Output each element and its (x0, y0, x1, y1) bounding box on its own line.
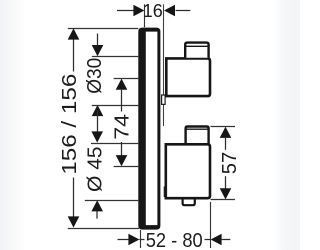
dim 16: right segment (176, 10, 191, 12)
top handle body (166, 58, 210, 96)
dim 156/156: up arrow (68, 28, 80, 39)
dim 52-80: left-pointing arrow (211, 234, 222, 246)
dim Ø45: bottom extension line (85, 200, 139, 202)
dim 57: up arrow (220, 127, 232, 138)
dim 74: lower segment (121, 142, 123, 156)
dim 57: down arrow (220, 188, 232, 199)
shared leader between Ø30 and Ø45 (97, 111, 99, 132)
bottom handle body (166, 144, 210, 198)
bottom tab inner line (186, 128, 209, 130)
top handle collar stub (162, 95, 166, 104)
dim Ø30: down arrow (92, 45, 104, 56)
dim 74: up arrow (116, 79, 128, 90)
dim 16: left-pointing arrow (164, 5, 175, 17)
dim Ø45: up arrow (91, 200, 103, 211)
plate front bezel line / right extension of dim 16 (163, 4, 165, 126)
dim 156/156: vertical line upper segment (73, 39, 75, 72)
dim 156/156: vertical line lower segment (73, 178, 75, 218)
escutcheon plate (side section, thick left bar) (138, 28, 160, 230)
dim 156/156: bottom extension line (68, 228, 139, 230)
dim 57: bottom extension line (211, 199, 236, 201)
top handle tab (185, 43, 208, 58)
dim Ø30: bottom extension line (92, 105, 139, 107)
dim 52-80: left tail (118, 239, 133, 241)
bottom handle collar line (163, 187, 165, 198)
dim 52-80: right tail (222, 239, 231, 241)
dim 57: top extension line (211, 126, 236, 128)
dim 74: top extension line (114, 78, 139, 80)
dim 57: upper segment (225, 137, 227, 150)
dim Ø45: top extension line (91, 143, 138, 145)
dim 74: bottom extension line (114, 166, 139, 168)
top tab inner line (185, 45, 208, 47)
dim 156/156: top extension line (68, 28, 139, 30)
dim 156/156: down arrow (68, 216, 80, 227)
dim Ø30: up arrow (92, 105, 104, 116)
dim 52-80: right extension line (210, 202, 212, 248)
dim Ø45: lower leader (96, 211, 98, 219)
svg-text:74: 74 (112, 114, 134, 139)
dim 16: left extension line (144, 4, 146, 27)
dim 74: upper segment (121, 89, 123, 112)
svg-text:156 / 156: 156 / 156 (59, 74, 81, 175)
bottom handle foot (183, 200, 195, 206)
dim 57: lower segment (225, 176, 227, 188)
dim 52-80: right-pointing arrow (128, 234, 139, 246)
dim 74: down arrow (116, 155, 128, 166)
svg-text:57: 57 (219, 152, 241, 175)
svg-text:16: 16 (143, 1, 163, 21)
dim Ø45: down arrow (91, 131, 103, 142)
dim 52-80: left extension line (140, 230, 142, 248)
dim Ø30: top extension line (92, 56, 139, 58)
dim 52-80: middle line (139, 239, 210, 241)
bottom handle tab (186, 127, 209, 144)
svg-text:52 - 80: 52 - 80 (146, 229, 203, 250)
dim Ø30: upper leader (97, 34, 99, 47)
dim 16: left segment (117, 10, 134, 12)
svg-text:Ø30: Ø30 (84, 58, 106, 94)
dim 52-80 label background (145, 231, 205, 248)
svg-text:Ø 45: Ø 45 (85, 146, 107, 192)
dim 16: right-pointing arrow (133, 5, 144, 17)
